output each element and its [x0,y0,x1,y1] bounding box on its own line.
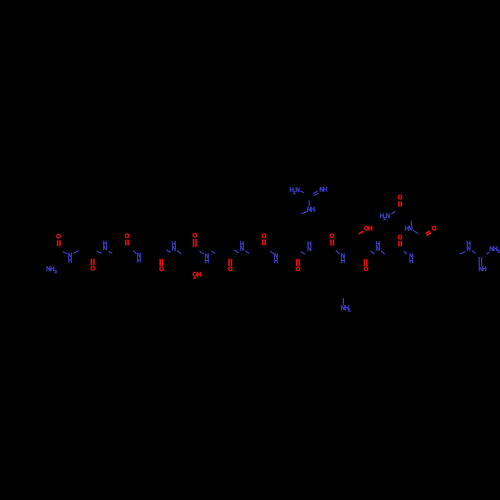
svg-text:O: O [90,265,95,272]
svg-text:O: O [228,266,233,273]
svg-text:H: H [311,207,316,214]
svg-text:H: H [240,241,245,248]
svg-text:H: H [274,258,279,265]
svg-text:H: H [341,258,346,265]
svg-text:H: H [137,258,142,265]
svg-text:O: O [330,233,335,240]
svg-text:N: N [295,187,300,194]
svg-text:H: H [376,241,381,248]
svg-text:O: O [125,233,130,240]
svg-text:H: H [323,187,328,194]
svg-text:N: N [386,213,391,220]
svg-text:O: O [432,226,437,233]
svg-text:H: H [197,271,202,278]
svg-text:H: H [307,241,312,248]
svg-text:O: O [296,266,301,273]
svg-text:N: N [408,225,413,232]
svg-text:O: O [364,266,369,273]
svg-text:H: H [172,241,177,248]
svg-text:O: O [262,233,267,240]
svg-text:H: H [205,258,210,265]
svg-text:O: O [398,235,403,242]
svg-text:O: O [192,233,197,240]
svg-text:H: H [409,258,414,265]
svg-text:H: H [482,266,487,273]
svg-text:2: 2 [54,269,57,274]
svg-text:H: H [103,240,108,247]
svg-text:O: O [159,266,164,273]
svg-text:H: H [368,225,373,232]
svg-text:H: H [68,258,73,265]
svg-text:O: O [398,195,403,202]
svg-text:2: 2 [348,308,351,313]
svg-text:H: H [466,241,471,248]
svg-text:O: O [56,234,61,241]
